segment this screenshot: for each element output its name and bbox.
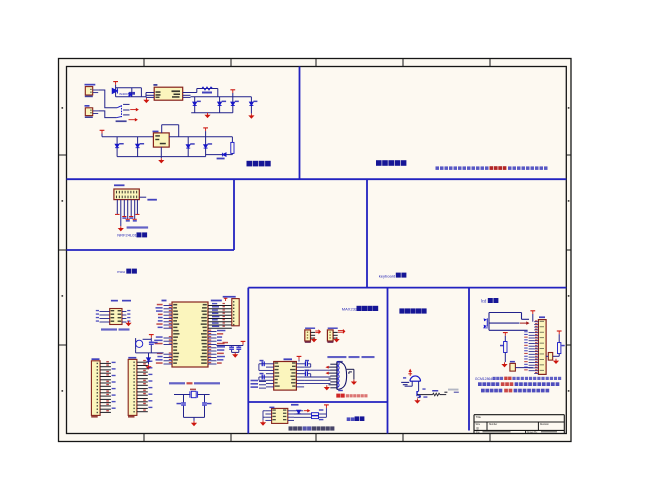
capacitor C13 right bottom — [304, 370, 311, 377]
note text LCD line2 — [478, 382, 559, 386]
resistor R4 serial2 — [294, 409, 326, 415]
net flag arrow LCD — [520, 322, 529, 324]
wires U5 lower left with net labels — [251, 380, 267, 388]
section divider horizontal y=250 (nrf bottom) — [67, 249, 235, 251]
ground NRF — [120, 226, 122, 228]
section divider vertical x=248.3 (max232 left) — [247, 288, 249, 434]
diode D1 1N4007 — [112, 88, 117, 93]
ic U5 left pins — [266, 362, 280, 387]
wire bypass loop over U2 — [162, 125, 179, 137]
buzzer LS1 — [403, 376, 421, 381]
mcu U4 AT89S52 — [162, 300, 222, 367]
label RS232 red note — [336, 394, 367, 398]
note text 24C02 eeprom — [101, 328, 130, 330]
ground DB9 pin5 — [326, 385, 328, 387]
section divider vertical x=367 (keyboard left) — [366, 179, 368, 287]
header P1 expansion — [91, 358, 115, 417]
power port LCD top — [530, 311, 535, 322]
note text serial2 conflict — [289, 426, 335, 430]
note text crystal circuit — [169, 382, 220, 384]
note text NRF module — [127, 226, 149, 228]
sheet area tint — [59, 59, 572, 442]
wire U6 left loop to ground — [263, 411, 265, 421]
ground buzzer — [416, 398, 418, 400]
wire LCD loop C — [489, 329, 528, 331]
power port VCC top of diode — [113, 81, 118, 83]
crystal Y1 oscillator — [174, 389, 210, 398]
section divider horizontal y=179 — [67, 178, 567, 180]
svg-text:NRF24L01: NRF24L01 — [117, 233, 137, 238]
connector J6 LCD 20pin — [534, 316, 546, 374]
LED D3 power indicator — [206, 153, 233, 160]
wire output rail y=96.8 — [191, 96, 252, 98]
potentiometer RP1 LCD contrast — [483, 318, 488, 328]
crystal cap CX1 — [177, 395, 187, 418]
svg-text:Size: Size — [476, 424, 481, 426]
section label MAX232串口部分 — [342, 306, 378, 312]
section label 红外部分 — [347, 416, 365, 421]
resistor R8 LCD backlight — [558, 343, 565, 357]
net flag JP2 pin1 — [338, 330, 345, 334]
wire buzzer left terminal — [405, 381, 413, 386]
ground U6 — [262, 421, 264, 423]
svg-text:Revision: Revision — [540, 424, 550, 426]
regulator U2 AMS1117-3.3 — [153, 131, 170, 147]
connector J3 NRF24L01 header — [114, 184, 139, 199]
ground crystal — [193, 421, 195, 423]
ic U6 serial2 driver — [265, 408, 294, 423]
jumper J7 LCD — [510, 361, 533, 371]
note text serial port 1 — [327, 356, 374, 358]
ground 24C02 — [128, 321, 130, 323]
ground LCD right — [555, 359, 557, 361]
border zone ticks left — [59, 155, 67, 345]
border zone ticks right — [566, 155, 571, 345]
capacitor C7 — [186, 137, 195, 157]
reset capacitor C9 — [149, 335, 158, 353]
connector J2 5V input — [85, 105, 99, 118]
connector J1 battery input — [85, 84, 99, 97]
capacitor C5 — [115, 137, 124, 157]
svg-text:Title: Title — [476, 415, 482, 419]
ic U5 right pins — [290, 362, 304, 387]
wire NRF pin 6 down with net flag — [133, 200, 137, 222]
wires U5 to DB9 — [304, 370, 330, 383]
wire NRF pin 5 down with net flag — [129, 200, 133, 219]
section divider vertical x=387.5 (buzzer left) — [387, 288, 389, 434]
section label mcu部分 — [117, 269, 137, 275]
power port +5V — [230, 89, 235, 91]
wire rail y=96.8 into U1 — [116, 96, 146, 98]
section divider vertical x=234 (nrf right) — [233, 179, 235, 250]
border zone ticks top — [144, 59, 490, 67]
title block text File Drawn — [476, 431, 557, 434]
label POWER SW — [116, 120, 127, 122]
section label 蜂鸣器部分 — [399, 308, 404, 313]
crystal cap CX2 — [202, 395, 211, 418]
eeprom U3 24C02 — [96, 300, 131, 325]
relay note text line — [436, 166, 548, 170]
capacitor C4 with own ground — [249, 97, 257, 118]
svg-text:Drawn By:: Drawn By: — [527, 431, 538, 434]
wire top bump with resistor R1 — [191, 87, 218, 97]
regulator U1 7805 — [146, 84, 191, 100]
net flag arrow DB9 pin4 — [326, 372, 328, 374]
section divider vertical x=299.5 (power|relay) — [299, 67, 301, 180]
resistor R7 LCD — [500, 342, 507, 363]
capacitor C2 — [218, 97, 227, 113]
resistor R2 vertical — [231, 137, 234, 155]
power port +3.3V — [203, 128, 208, 137]
wire LCD loop B — [489, 313, 520, 331]
section divider vertical x=469 (lcd left) — [468, 288, 470, 431]
net label above U6 — [269, 404, 298, 408]
wire lower rail row2 — [117, 156, 206, 158]
net label buzzer control — [448, 389, 459, 393]
wire NRF pin 7 down with net flag — [135, 200, 139, 215]
section label 继电器部分 — [376, 160, 382, 166]
capacitor C1 on output — [193, 97, 201, 113]
wire vertical x=131.8 — [131, 88, 133, 97]
svg-text:keyboard: keyboard — [379, 273, 395, 278]
title block frame — [474, 415, 564, 434]
ground LCD left — [504, 362, 506, 364]
wire bundle LCD data pins — [524, 331, 534, 371]
wire VCC stem through diode — [115, 85, 117, 97]
capacitor C3 — [231, 93, 239, 113]
svg-text:lcd: lcd — [481, 299, 487, 304]
wire output rail row2 — [169, 136, 232, 138]
section label keyboard部分 — [379, 273, 407, 279]
ground JP1 — [313, 337, 315, 339]
svg-text:IN4007: IN4007 — [119, 92, 129, 96]
switch SW1 power select — [117, 104, 130, 117]
svg-text:Number: Number — [489, 423, 497, 426]
ground JP2 — [336, 337, 338, 339]
svg-text:mcu: mcu — [117, 269, 125, 274]
power port LCD middle — [503, 333, 508, 342]
wire ground rail y=112.8 — [191, 112, 233, 114]
section label NRF24L01部分 — [117, 232, 147, 237]
capacitor C12 right top — [304, 360, 311, 367]
power port +5V row2 — [100, 129, 105, 131]
section divider horizontal y=402 (serial2 top) — [248, 401, 387, 403]
capacitor C10 left top — [259, 360, 266, 371]
power port buzzer — [408, 369, 412, 376]
header J4 ISP right of mcu — [223, 296, 240, 326]
jumper J8 LCD backlight — [546, 353, 559, 361]
section divider horizontal y=287.6 — [248, 287, 566, 289]
wire U6 right with cap — [294, 410, 303, 414]
ground under U2 — [159, 147, 163, 163]
wire top rail y=87.8 — [116, 87, 142, 89]
wire LCD top loop — [489, 313, 529, 320]
net flag arrow DB9 pin2 — [326, 366, 328, 368]
ground DB9 shell — [353, 380, 355, 382]
power flag arrow right of switch — [130, 108, 138, 110]
label IN4007 — [119, 92, 135, 96]
section label 电源部分 — [247, 161, 253, 167]
inner border frame — [67, 67, 567, 434]
note text LCD line3 — [481, 389, 549, 393]
jumper JP2 — [327, 328, 337, 343]
wire NRF pin stub right — [139, 197, 157, 200]
earth ground buzzer — [401, 382, 409, 384]
header P2 expansion — [128, 357, 152, 418]
power port serial2 — [324, 405, 329, 417]
section label lcd部分 — [481, 298, 498, 304]
ground near U1 input — [145, 98, 147, 100]
wire crystal ground rail — [184, 417, 205, 421]
capacitor C8 — [204, 137, 213, 157]
ic U5 MAX232 — [274, 356, 302, 390]
svg-text:MAX232: MAX232 — [342, 306, 358, 311]
wire vertical x=141.4 — [140, 88, 142, 97]
svg-text:File:: File: — [476, 432, 481, 434]
border zone ticks bottom — [144, 434, 490, 442]
diode D2 small — [129, 93, 132, 96]
connector J5 DB9 serial — [329, 361, 347, 391]
svg-text:B: B — [477, 427, 479, 431]
capacitor C6 — [136, 137, 145, 157]
capacitor C11 left bottom — [259, 373, 266, 381]
wire J2 to switch — [98, 111, 117, 118]
zone letter marks — [62, 107, 570, 392]
jumper JP1 — [305, 328, 315, 343]
mcu U4 right pins with net labels — [201, 303, 232, 364]
wire DB9 shell to ground — [347, 369, 354, 379]
net flag arrow serial2 — [304, 410, 310, 412]
wire NRF pin 3 down with net flag — [122, 200, 126, 219]
wire NRF pin 1 down — [115, 200, 120, 215]
decoupling caps right of mcu — [217, 341, 246, 357]
title block text Size Number Revision — [476, 423, 550, 431]
wire NRF pin 2 down to ground — [120, 200, 122, 227]
reset resistor to ground — [146, 353, 150, 369]
power flag arrow lower — [129, 119, 138, 121]
reset transistor Q1 circuit — [136, 338, 164, 353]
transistor Q2 buzzer driver — [417, 381, 427, 397]
ground power section top row — [207, 113, 209, 115]
net flag JP1 pin1 — [315, 330, 320, 334]
resistor R5 serial2 — [294, 416, 326, 420]
note text LCD line1 — [475, 377, 561, 381]
mcu U4 left pins with net labels — [154, 304, 179, 364]
outer border frame — [59, 59, 572, 442]
resistor R6 buzzer base — [417, 390, 447, 396]
wire J1 to switch — [98, 90, 117, 108]
svg-text:GCM12864C: GCM12864C — [475, 377, 495, 381]
wire NRF pin 4 down with net flag — [126, 200, 130, 222]
wire main rail row2 — [102, 134, 153, 137]
power port LCD right — [557, 331, 562, 343]
